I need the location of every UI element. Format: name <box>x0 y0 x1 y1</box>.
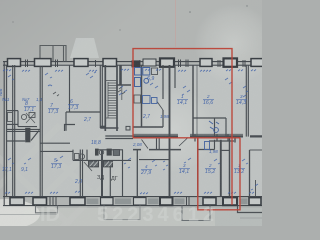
fold line top <box>175 0 177 47</box>
bath partition x214.5 <box>214 118 216 137</box>
sink block kitchen <box>134 95 157 104</box>
corner block x133 <box>132 60 141 67</box>
corridor wall y139.8 right <box>209 140 234 142</box>
bath wall y124 left <box>7 123 18 125</box>
wall y150.4 right of x221 <box>221 149 230 151</box>
watermark light strip bottom <box>0 208 215 226</box>
corridor wall north y129.5 double <box>7 128 40 130</box>
watermark blob center <box>131 88 215 172</box>
wall y124 x64-75 <box>65 125 76 132</box>
stove squares kitchen <box>152 68 158 75</box>
bath fixtures left <box>8 113 36 124</box>
closet wall x156.5 double <box>156 139 158 150</box>
bath fixtures center <box>75 150 104 171</box>
bath fixtures right <box>205 121 220 150</box>
wall x41 double <box>39 67 41 197</box>
pencil marks below landing <box>53 88 125 97</box>
window B7 <box>203 198 216 205</box>
paper background <box>0 0 262 226</box>
room 16,6 bottom wall y118 <box>193 117 226 119</box>
corridor wall y151 to bath <box>40 150 73 152</box>
bath wall x226 <box>225 118 227 137</box>
porch 2 <box>104 206 140 220</box>
window W5 <box>143 59 156 66</box>
blue dimension ticks bottom <box>5 191 254 194</box>
closet hatches center <box>89 161 113 167</box>
kitchen wall x163 <box>162 65 164 127</box>
corridor wall south y149.5 center <box>133 149 181 151</box>
corridor door swing right <box>179 138 188 147</box>
paper grain <box>0 0 262 226</box>
wall y150 right end <box>250 149 263 151</box>
label room 14,3 far right <box>236 94 246 106</box>
closet wall y160 center <box>87 159 131 161</box>
balcony top left <box>40 46 66 62</box>
blue room scribbles top <box>8 72 248 97</box>
wall tick marks top <box>26 60 246 68</box>
kitchen door swing <box>157 102 163 111</box>
window B9 <box>249 198 261 205</box>
corridor wall south y143 left-center <box>40 142 70 144</box>
bottom exterior wall upper line <box>3 196 262 198</box>
door swing bottom-center room <box>142 140 149 149</box>
stairwell wall left <box>104 65 106 131</box>
closet wall y159.6 right-center <box>139 159 170 161</box>
room wall x137 bottom-center <box>136 150 138 197</box>
svg-text:ID: ID <box>40 204 60 226</box>
wall x101 top double <box>99 65 101 128</box>
window B3 <box>70 198 85 205</box>
door square landing <box>126 126 130 130</box>
label room 14,1 bottom <box>179 163 189 175</box>
wall x247 double <box>245 65 247 137</box>
corridor south wall y141 left <box>7 140 25 142</box>
door swing left corridor <box>31 131 39 141</box>
label fraction bars <box>24 100 247 170</box>
svg-text:52234612: 52234612 <box>97 204 218 226</box>
wall x66 short <box>65 112 67 131</box>
landing corner block <box>100 126 105 129</box>
window W6 <box>160 58 174 66</box>
hall wall y149.8 center <box>95 149 123 151</box>
kitchen fixtures blue <box>135 68 150 87</box>
kitchen wall y127 <box>133 126 163 128</box>
wall x110 bottom <box>109 161 111 197</box>
window B1 <box>10 198 24 205</box>
label room 14,1 top <box>177 94 187 106</box>
corridor door jamb ticks <box>195 135 228 142</box>
landing wall y85 <box>117 84 131 86</box>
watermark blob top right <box>194 4 274 84</box>
porch 3 <box>182 206 210 221</box>
watermark white corner blob bottom left <box>0 199 40 229</box>
bath wall y126 <box>18 126 37 128</box>
label room 17,1 top-left <box>24 101 34 113</box>
wall x229.5 bottom <box>229 137 231 197</box>
bath center walls <box>73 150 87 161</box>
wall tick marks bottom left of B1 <box>50 197 189 206</box>
wall x120 upper thick <box>119 65 122 85</box>
window B6 <box>160 197 173 205</box>
building interior fill <box>6 64 262 197</box>
window W4 <box>103 59 117 67</box>
porch 4 bottom right <box>238 206 263 213</box>
blue room scribbles bottom <box>8 156 258 190</box>
label room 13,2 bottom right <box>234 163 244 175</box>
wall x249.5 bottom <box>249 150 251 197</box>
divider wall x169.5 <box>169 65 171 197</box>
label room 17,3 top third <box>68 99 78 111</box>
hall pier 1 <box>95 149 99 156</box>
window B5 <box>134 198 147 205</box>
stairwell wall right <box>116 65 118 131</box>
watermark ID text <box>40 204 218 226</box>
wall x197 top <box>196 65 198 137</box>
window W9 <box>251 59 263 67</box>
red outline mid horizontal <box>133 137 240 139</box>
porch 1 <box>36 206 58 213</box>
corridor wall center y136 <box>133 135 262 137</box>
wall x193 <box>192 65 194 137</box>
bath wall y110 left <box>7 110 18 112</box>
label room 17,3 bottom <box>51 158 61 170</box>
window W7 <box>200 59 212 67</box>
label room 16,6 top-right <box>203 94 213 106</box>
watermark trapezoid blob <box>70 38 99 58</box>
wall x70 top <box>69 65 71 112</box>
corridor walls y136/y138.5 center <box>105 135 133 137</box>
corridor pier block left <box>25 128 30 143</box>
red outline top rectangle <box>133 49 232 205</box>
hatched wall piers bottom <box>87 198 248 204</box>
window B8 <box>223 197 237 205</box>
wall x255.5 bottom short <box>255 180 257 197</box>
duct wall x175 <box>174 65 176 88</box>
left exterior wall <box>3 61 5 206</box>
top exterior wall upper line <box>3 61 262 63</box>
kitchen wall x141 <box>141 65 143 127</box>
wall x221 bottom thick <box>220 140 222 197</box>
blue dimension ticks top <box>3 69 256 72</box>
wall x13 double <box>12 65 14 197</box>
bath wall x18 <box>17 111 19 127</box>
window W1 <box>8 59 21 67</box>
wall y112 center-left <box>66 111 100 113</box>
hall hatch rect <box>113 150 119 156</box>
window W3 <box>74 59 88 67</box>
paper specks <box>12 5 247 30</box>
bottom exterior wall lower line <box>3 205 262 207</box>
staircase <box>105 81 122 119</box>
label room 15,2 bottom right <box>205 163 215 175</box>
bath wall y149.5 right <box>198 140 215 150</box>
wall x197.8 bottom <box>197 137 199 197</box>
door labels dark <box>97 175 118 182</box>
red outline bottom room <box>198 138 240 210</box>
entrance door B4 <box>101 198 114 205</box>
label room 27,9 bottom center <box>140 164 151 176</box>
landing wall y128 <box>100 127 118 129</box>
watermark lattice bottom left <box>0 125 140 230</box>
wall x81 bottom double <box>79 150 81 197</box>
top exterior wall lower line <box>3 64 262 66</box>
window B2 <box>33 198 47 205</box>
wall x102 bottom thick <box>101 150 103 197</box>
label room 17,3 top second <box>48 103 58 115</box>
wall x122.5 bottom <box>122 150 124 197</box>
window W2 <box>35 59 52 67</box>
hall pier 2 <box>107 149 112 156</box>
window W8 <box>224 58 238 66</box>
duct stub x235 <box>234 137 236 143</box>
